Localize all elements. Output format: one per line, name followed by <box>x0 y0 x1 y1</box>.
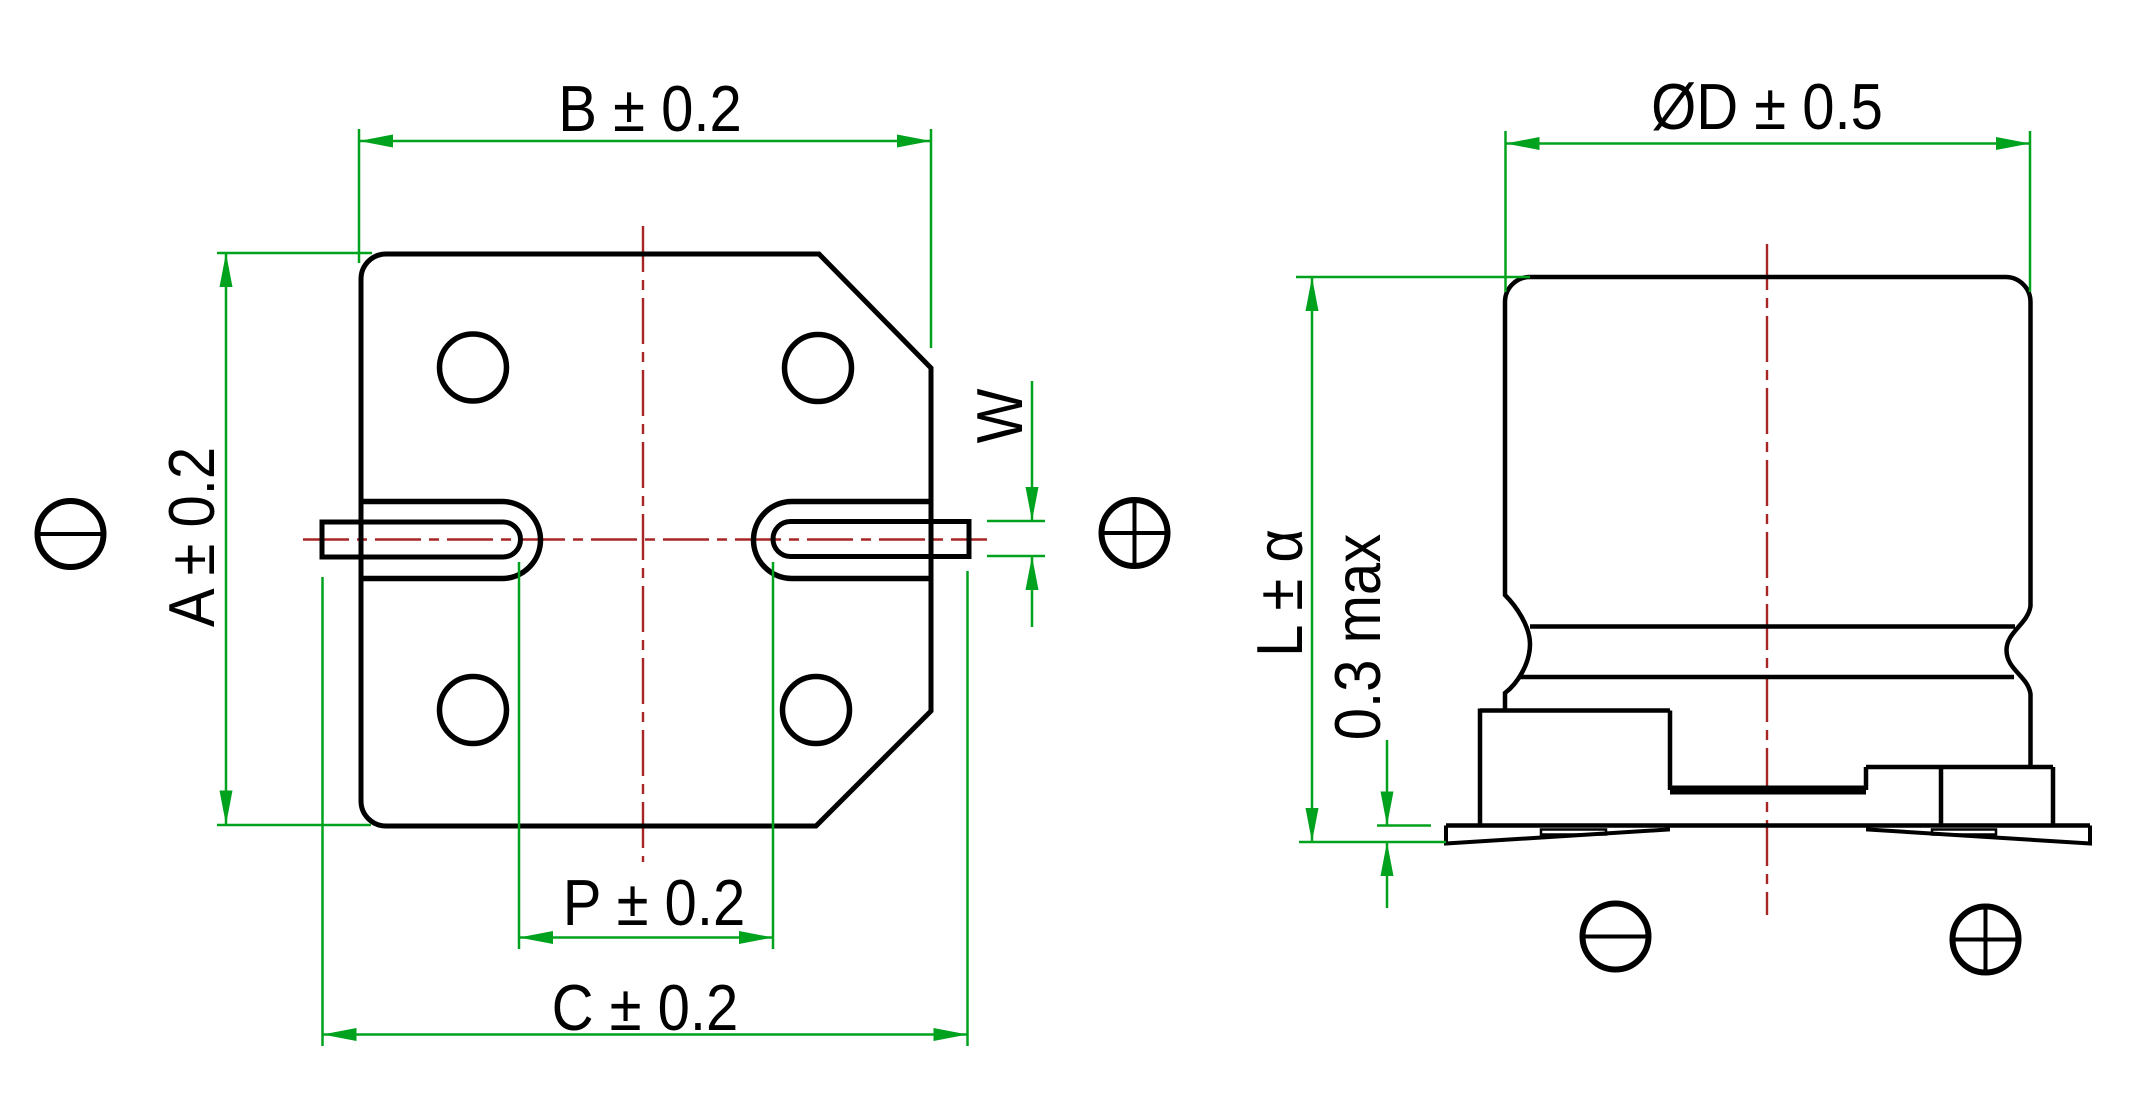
hole bottom-left <box>440 677 507 744</box>
hole top-right <box>785 335 852 402</box>
dimension L arrows <box>1306 277 1319 311</box>
polarity minus symbol (left) <box>38 501 104 567</box>
polarity minus symbol (bottom) <box>1583 904 1649 970</box>
polarity plus symbol (right of left figure) <box>1102 500 1168 566</box>
lead left (inner stadium, protruding) <box>322 522 521 557</box>
svg-text:B ± 0.2: B ± 0.2 <box>558 73 741 146</box>
polarity plus symbol (bottom) <box>1953 907 2019 973</box>
plate outline <box>361 254 931 826</box>
seat divider vertical <box>1939 767 1944 826</box>
svg-text:ØD ± 0.5: ØD ± 0.5 <box>1651 71 1883 144</box>
dimension B extension lines <box>358 129 361 263</box>
svg-text:0.3 max: 0.3 max <box>1322 533 1395 740</box>
seating plane extension line <box>1299 841 1446 844</box>
dimension 0.3max arrows <box>1381 792 1394 826</box>
hole top-left <box>440 334 507 401</box>
dimension A extension lines <box>217 252 372 255</box>
terminal strip right <box>1868 826 2090 844</box>
centerline vertical (red) <box>1766 244 1768 915</box>
svg-text:A ± 0.2: A ± 0.2 <box>156 447 229 627</box>
svg-text:C ± 0.2: C ± 0.2 <box>552 972 739 1045</box>
dimension 0.3max tick <box>1377 824 1431 827</box>
dimension B line <box>359 140 931 143</box>
dimension C extension lines <box>321 577 324 1046</box>
dimension P arrows <box>519 931 553 944</box>
dimension 0.3max upper line <box>1386 740 1389 826</box>
seat recessed center line (thick) <box>1670 786 1866 795</box>
lead right (inner stadium, protruding) <box>773 522 969 557</box>
seat plate top edge <box>1480 708 1670 713</box>
dimension C arrows <box>323 1028 357 1041</box>
terminal strip left <box>1446 826 1668 844</box>
dimension D arrows <box>1506 137 1540 150</box>
capacitor can outline <box>1505 277 2031 768</box>
dimension W arrows <box>1026 487 1039 521</box>
seat bottom line <box>1446 823 2090 828</box>
svg-text:P ± 0.2: P ± 0.2 <box>563 867 745 940</box>
svg-text:W: W <box>964 389 1037 444</box>
seat plate left edge <box>1478 709 1483 828</box>
dimension C line <box>323 1033 968 1036</box>
seat left block right edge <box>1668 711 1673 791</box>
dimension A line <box>225 253 228 825</box>
dimension B arrows <box>359 135 393 148</box>
crimp line upper <box>1530 624 2015 629</box>
slot left (outer stadium) <box>361 502 541 579</box>
crimp line lower <box>1519 675 2014 680</box>
svg-text:L ± α: L ± α <box>1244 529 1317 657</box>
dimension D line <box>1506 142 2031 145</box>
dimension D extension lines <box>1504 131 1507 292</box>
seat right edge <box>2051 767 2056 826</box>
dimension P extension lines <box>518 562 521 949</box>
seat step vertical <box>1864 767 1869 790</box>
seat step top <box>1866 765 2053 770</box>
hole bottom-right <box>783 677 850 744</box>
dimension W ticks <box>987 520 1045 523</box>
dimension W lines <box>1031 381 1034 521</box>
centerline vertical (red) <box>642 226 644 862</box>
centerline horizontal (red) <box>303 538 987 540</box>
dimension A arrows <box>220 253 233 287</box>
slot right (outer stadium) <box>754 502 932 579</box>
dimension P line <box>519 936 773 939</box>
dimension 0.3max lower line <box>1386 842 1389 908</box>
dimension L top extension <box>1296 276 1530 279</box>
dimension L line <box>1311 277 1314 842</box>
